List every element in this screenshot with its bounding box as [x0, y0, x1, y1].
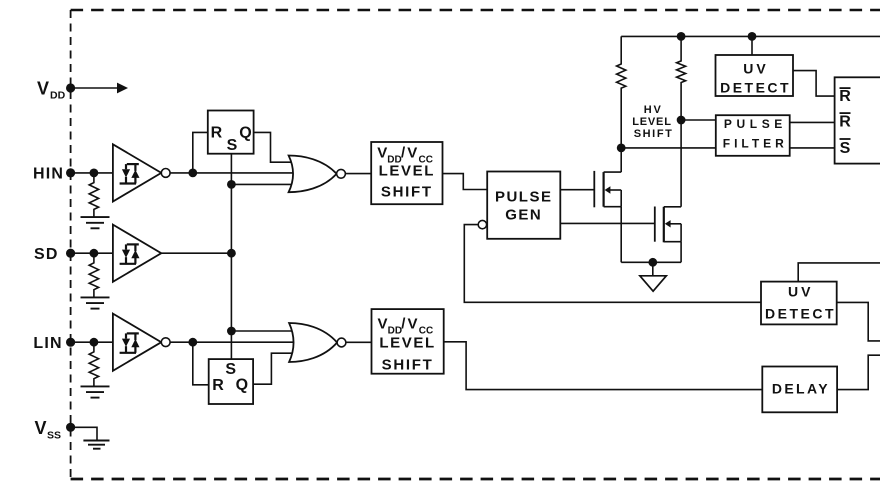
- wire S chain vertical: [230, 154, 232, 359]
- resistor HIN pulldown: [89, 173, 98, 217]
- pin label VSS: [35, 418, 62, 442]
- node S chain junction top: [227, 180, 236, 189]
- svg-text:SD: SD: [34, 246, 59, 263]
- node LIN pin dot: [66, 338, 75, 347]
- svg-text:HV: HV: [644, 104, 663, 116]
- resistor SD pulldown: [89, 253, 98, 297]
- svg-text:S: S: [227, 137, 238, 154]
- wire delay output: [837, 355, 880, 389]
- wire S chain to NOR top input 3: [231, 183, 296, 185]
- transistor Q2 lower HV fet: [655, 207, 681, 263]
- wire UV detect bottom output: [837, 302, 880, 341]
- node fet source junction: [648, 258, 657, 267]
- block pulse gen: [487, 172, 560, 239]
- svg-text:S: S: [840, 140, 851, 157]
- svg-text:SHIFT: SHIFT: [381, 184, 433, 201]
- svg-text:HIN: HIN: [33, 166, 64, 183]
- resistor R2 HV: [677, 36, 686, 206]
- wire LIN buffer output to NOR input 2: [165, 341, 296, 343]
- wire UV detect bottom top connection: [798, 263, 880, 282]
- wire latch Q to NOR input 1: [254, 132, 296, 162]
- wire NOR bottom output to level shift: [346, 341, 372, 343]
- node SD output junction: [227, 249, 236, 258]
- svg-text:V: V: [408, 316, 418, 333]
- node SD pin dot: [66, 249, 75, 258]
- ground fet common (open triangle): [640, 262, 666, 291]
- node R1 bottom junction: [617, 144, 626, 153]
- ground VSS: [83, 441, 109, 449]
- IC boundary dashed border top: [71, 9, 880, 11]
- wire LIN to lower latch R input: [193, 342, 209, 385]
- svg-text:LEVEL: LEVEL: [632, 116, 671, 128]
- IC boundary dashed border left: [70, 10, 72, 479]
- wire SD buffer output to S chain: [161, 252, 231, 254]
- svg-text:LEVEL: LEVEL: [379, 335, 435, 352]
- wire R2 node to pulse filter input 1: [681, 119, 716, 121]
- svg-text:DETECT: DETECT: [720, 80, 791, 96]
- svg-text:LIN: LIN: [33, 335, 62, 352]
- gate NOR bottom: [289, 323, 346, 362]
- latch RS top (HIN): [208, 111, 254, 155]
- svg-text:SHIFT: SHIFT: [382, 357, 434, 374]
- wire R1 node to pulse filter input 2: [621, 147, 716, 149]
- wire pulse gen to upper fet gate: [560, 189, 594, 191]
- ground HIN: [81, 217, 110, 228]
- pin label VDD: [37, 78, 66, 101]
- node HIN buffer output junction: [188, 169, 197, 178]
- buffer U1 output bubble: [161, 169, 170, 178]
- node S chain junction bottom: [227, 327, 236, 336]
- wire NOR top output to level shift: [345, 173, 371, 175]
- wire VDD arrow: [71, 83, 128, 94]
- ground SD: [81, 297, 110, 308]
- node LIN buffer output junction: [188, 338, 197, 347]
- svg-text:SS: SS: [47, 429, 61, 441]
- svg-text:GEN: GEN: [505, 207, 542, 224]
- svg-text:R: R: [211, 125, 223, 142]
- svg-text:DETECT: DETECT: [765, 305, 836, 321]
- wire pulse filter out2 to latch Sbar: [790, 147, 835, 149]
- latch right Rbar R Sbar (cut at edge): [835, 77, 880, 163]
- svg-text:V: V: [37, 78, 49, 98]
- node rail junction R2: [677, 32, 686, 41]
- node rail junction UV: [748, 32, 757, 41]
- wire level shift bottom to delay: [444, 342, 763, 390]
- svg-text:V: V: [35, 418, 47, 438]
- node HIN resistor junction: [90, 169, 99, 178]
- svg-text:PULSE: PULSE: [495, 188, 553, 205]
- svg-text:UV: UV: [743, 60, 768, 76]
- svg-text:DD: DD: [50, 90, 66, 102]
- wire LIN pin to buffer: [71, 341, 113, 343]
- gate NOR top: [289, 156, 346, 193]
- node HIN pin dot: [66, 168, 75, 177]
- buffer U1 HIN schmitt trigger: [113, 144, 161, 201]
- wire HIN to latch R input: [193, 132, 208, 173]
- wire HIN buffer output to NOR input 2: [165, 172, 296, 174]
- node VSS pin dot: [66, 423, 75, 432]
- node LIN resistor junction: [90, 338, 99, 347]
- resistor LIN pulldown: [89, 342, 98, 386]
- svg-text:R: R: [839, 114, 851, 131]
- block UV detect top: [716, 55, 794, 96]
- wire rail drop to UV detect top: [751, 36, 753, 55]
- svg-text:V: V: [377, 145, 387, 162]
- block delay: [762, 367, 837, 413]
- svg-text:LEVEL: LEVEL: [379, 163, 435, 180]
- wire pulse gen bubble input from uv detect bottom: [464, 225, 761, 303]
- svg-text:V: V: [407, 145, 417, 162]
- pulse gen input bubble: [478, 220, 486, 228]
- node SD resistor junction: [90, 249, 99, 258]
- svg-text:UV: UV: [788, 284, 813, 300]
- wire top rail VB: [621, 35, 880, 37]
- svg-text:V: V: [378, 316, 388, 333]
- svg-text:PULSE: PULSE: [724, 117, 787, 131]
- wire pulse gen to lower fet gate: [560, 222, 655, 224]
- resistor R1 HV: [617, 36, 626, 147]
- label HV LEVEL SHIFT: [632, 104, 673, 140]
- wire UV detect top to latch Rbar: [793, 71, 835, 97]
- wire fet sources common: [621, 261, 681, 263]
- node R2 mid junction: [677, 116, 686, 125]
- IC boundary dashed border bottom: [71, 478, 880, 481]
- buffer U2 SD schmitt trigger: [113, 225, 161, 282]
- wire SD pin to buffer: [71, 252, 113, 254]
- node VDD pin dot: [66, 83, 75, 92]
- wire pulse filter out1 to latch R: [790, 121, 835, 123]
- ground LIN: [81, 386, 110, 397]
- svg-text:DELAY: DELAY: [772, 381, 830, 397]
- wire S chain to NOR bottom input 1: [231, 330, 296, 332]
- svg-text:R: R: [839, 88, 851, 105]
- buffer U3 output bubble: [161, 338, 170, 347]
- wire level shift top to pulse gen: [443, 174, 488, 190]
- block VDD/VCC level shift top: [371, 142, 442, 204]
- buffer U3 LIN schmitt trigger: [113, 314, 161, 371]
- svg-text:FILTER: FILTER: [723, 136, 788, 150]
- latch RS bottom (LIN): [209, 359, 253, 404]
- wire lower latch Q to NOR input 3: [253, 353, 296, 384]
- svg-text:SHIFT: SHIFT: [634, 128, 674, 140]
- transistor Q1 upper HV fet: [594, 148, 621, 262]
- svg-text:R: R: [212, 377, 224, 394]
- block UV detect bottom: [761, 282, 837, 325]
- svg-text:Q: Q: [239, 125, 251, 142]
- block VDD/VCC level shift bottom: [372, 309, 444, 374]
- wire VSS to ground: [71, 427, 97, 440]
- wire HIN pin to buffer: [71, 172, 113, 174]
- block pulse filter: [716, 115, 790, 156]
- svg-text:Q: Q: [236, 377, 248, 394]
